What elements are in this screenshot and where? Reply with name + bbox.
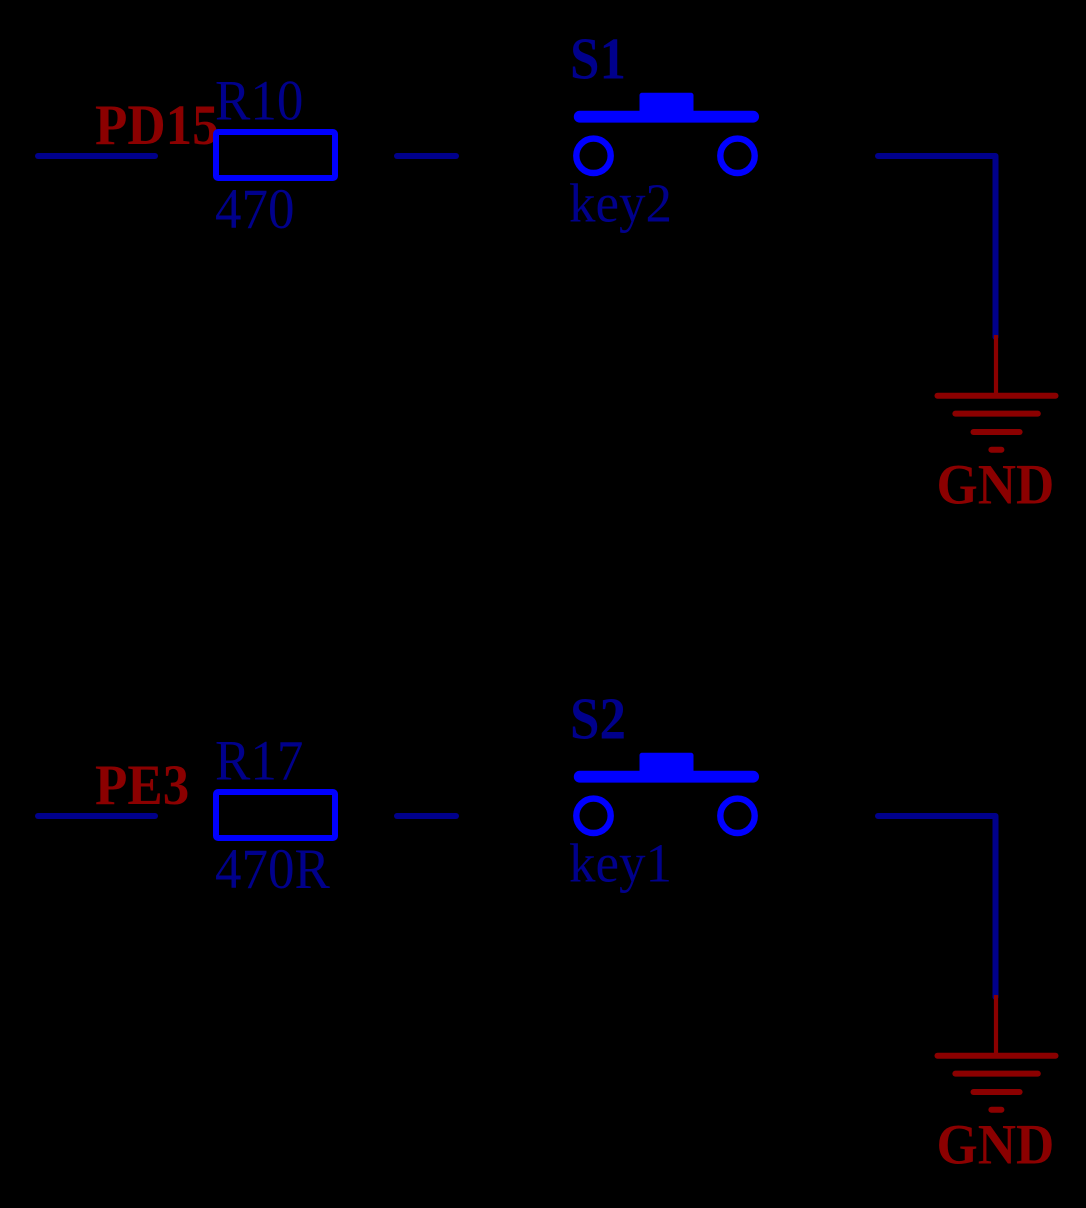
ground bar 2	[955, 411, 1037, 417]
svg-text:GND: GND	[937, 453, 1055, 516]
switch S1 pin 1 circle	[576, 139, 610, 173]
svg-text:PE3: PE3	[95, 753, 189, 816]
svg-text:S2: S2	[570, 687, 626, 752]
wire PD15 left segment	[38, 153, 155, 159]
svg-text:470: 470	[215, 177, 294, 240]
ground bar 4	[991, 447, 1001, 453]
wire R10 to S1	[397, 153, 456, 159]
svg-text:S1: S1	[570, 27, 626, 92]
svg-text:GND: GND	[937, 1113, 1055, 1176]
wire PE3 left segment	[38, 813, 155, 819]
wire S2 to GND	[878, 816, 996, 997]
switch S1 actuator bar	[580, 111, 753, 123]
switch S2 button cap	[640, 753, 694, 779]
resistor R10 body	[216, 132, 335, 178]
ground bar 2 lower	[955, 1071, 1037, 1077]
ground stem	[994, 335, 998, 396]
ground bar 4 lower	[991, 1107, 1001, 1113]
svg-text:PD15: PD15	[95, 93, 219, 156]
ground bar 3 lower	[974, 1089, 1020, 1095]
svg-text:470R: 470R	[215, 837, 330, 900]
wire R17 to S2	[397, 813, 456, 819]
switch S2 actuator bar	[580, 771, 753, 783]
switch S2 pin 2 circle	[720, 799, 754, 833]
switch S1 pin 2 circle	[720, 139, 754, 173]
switch S2 pin 1 circle	[576, 799, 610, 833]
svg-text:R10: R10	[215, 69, 303, 132]
resistor R17 body	[216, 792, 335, 838]
ground bar 1	[938, 393, 1056, 399]
svg-text:key2: key2	[569, 172, 672, 233]
svg-text:R17: R17	[215, 729, 303, 792]
ground stem lower	[994, 995, 998, 1056]
ground bar 3	[974, 429, 1020, 435]
switch S1 button cap	[640, 93, 694, 119]
wire S1 to GND	[878, 156, 996, 337]
ground bar 1 lower	[938, 1053, 1056, 1059]
svg-text:key1: key1	[569, 832, 672, 893]
